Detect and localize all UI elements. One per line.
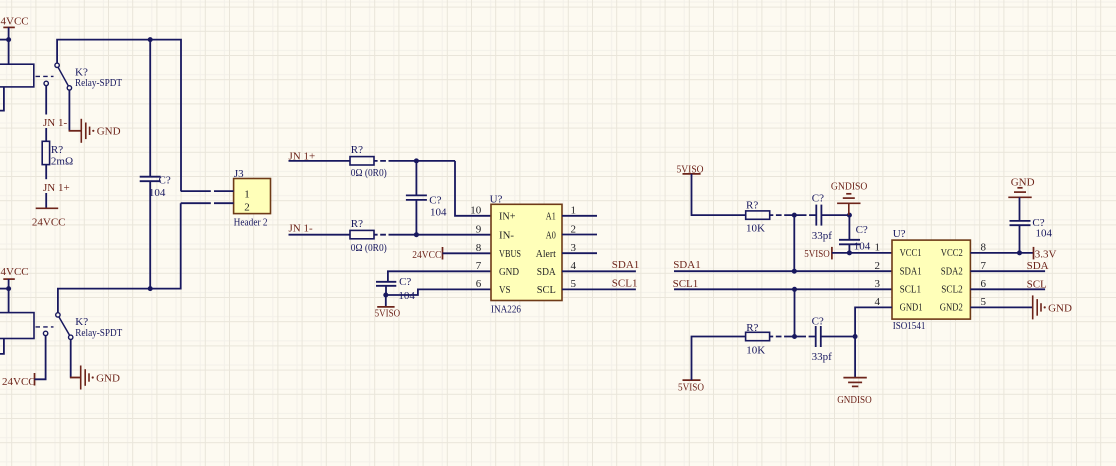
relay K1 common contact [55,63,59,67]
wire to pin 1 [832,252,892,254]
svg-text:R?: R? [746,199,758,211]
svg-text:SCL1: SCL1 [900,284,922,296]
svg-text:SCL1: SCL1 [673,278,699,290]
resistor R3 0R body [350,230,374,238]
svg-text:9: 9 [476,223,482,235]
svg-text:2: 2 [244,201,250,213]
junction [148,37,153,42]
svg-text:SCL1: SCL1 [612,277,638,289]
svg-text:SDA: SDA [1027,260,1049,272]
junction [847,250,852,255]
svg-text:4: 4 [571,260,577,272]
svg-text:1: 1 [875,242,881,254]
ground GND (relay K1) [69,130,82,132]
wire pin7 GND to C3 [388,271,491,282]
pin 1 of J3 [181,190,234,192]
svg-text:5VISO: 5VISO [678,381,704,393]
capacitor C4 33pf plates [815,205,817,226]
wire [8,40,10,65]
op-amp U1 INA226 body [491,204,562,300]
svg-text:SDA1: SDA1 [900,266,922,278]
relay K2 common contact [56,313,60,317]
wire [770,214,817,216]
svg-text:IN+: IN+ [499,211,516,223]
wire [793,215,795,271]
svg-text:0Ω (0R0): 0Ω (0R0) [351,242,387,254]
svg-text:SDA2: SDA2 [941,266,963,278]
svg-text:VBUS: VBUS [499,248,521,260]
svg-text:4: 4 [875,296,881,308]
relay K2 blade [59,317,70,336]
wire [58,203,181,313]
wire to pin 10 [455,161,491,216]
wire [1019,225,1021,253]
svg-text:3.3V: 3.3V [1035,249,1057,261]
relay K1 blade [58,67,68,86]
svg-text:5: 5 [571,278,577,290]
wire [57,40,181,192]
wire [821,214,849,216]
wire [821,336,855,338]
svg-text:JN 1+: JN 1+ [43,182,70,194]
relay K1 contact NC [44,81,48,85]
capacitor C2 104 lead [415,161,417,196]
wire [8,289,10,313]
svg-text:GND: GND [1048,302,1072,314]
wire [35,336,46,380]
svg-text:0Ω (0R0): 0Ω (0R0) [351,167,387,179]
junction [853,334,858,339]
capacitor C2 plates [406,194,427,196]
svg-text:VCC2: VCC2 [941,247,963,259]
wire [149,181,151,288]
svg-text:Alert: Alert [536,248,556,260]
capacitor C5 104 plates [839,239,860,241]
svg-text:J3: J3 [234,168,244,180]
pin 4 wire [562,270,636,272]
svg-text:GND: GND [97,126,121,138]
svg-text:C?: C? [429,194,441,206]
power port 24VCC (below shunt) [36,207,59,209]
svg-text:24VCC: 24VCC [32,217,66,229]
junction [1017,250,1022,255]
wire [149,40,151,177]
wire [770,336,816,338]
junction [414,158,419,163]
svg-text:IN-: IN- [499,229,514,241]
junction [792,269,797,274]
wire [289,160,351,162]
wire [0,39,9,41]
svg-text:7: 7 [981,260,987,272]
pin 8 wire [970,252,1033,254]
relay coil box (clipped at left edge) [0,64,34,87]
svg-text:R?: R? [351,144,363,156]
svg-text:GND2: GND2 [940,302,963,314]
wire [415,200,417,235]
junction [6,37,11,42]
wire [848,244,850,253]
svg-text:24VCC: 24VCC [412,249,441,261]
svg-text:JN 1-: JN 1- [43,117,67,129]
svg-text:1: 1 [244,189,250,201]
svg-text:GND: GND [96,372,120,384]
svg-text:8: 8 [981,242,987,254]
svg-text:INA226: INA226 [491,303,521,315]
svg-text:A1: A1 [546,211,556,223]
svg-text:10K: 10K [746,223,765,235]
svg-text:C?: C? [399,276,411,288]
junction [383,293,388,298]
svg-text:SDA1: SDA1 [673,259,701,271]
ground GND (relay K2) [70,377,81,379]
svg-text:R?: R? [746,322,758,334]
wire SDA1 to pin 2 [674,270,892,272]
wire [0,288,9,290]
svg-text:10: 10 [470,205,482,217]
wire [848,215,850,240]
wire pin6 VS jog [386,289,491,295]
svg-text:VCC1: VCC1 [900,247,922,259]
svg-text:5VISO: 5VISO [804,248,830,260]
svg-text:5: 5 [981,296,987,308]
junction [792,334,797,339]
svg-text:3: 3 [875,278,881,290]
wire [70,340,72,378]
svg-text:GND: GND [499,266,519,278]
svg-text:6: 6 [476,278,482,290]
svg-text:2: 2 [571,223,577,235]
ground GNDISO (bottom) [843,377,866,379]
wire to pin 4 [855,307,892,336]
svg-text:VS: VS [499,284,511,296]
svg-text:2mΩ: 2mΩ [51,155,73,167]
wire [68,90,70,131]
svg-text:C?: C? [812,315,824,327]
wire [374,160,455,162]
relay K2 dashed actuator link [36,326,54,328]
svg-text:U?: U? [893,228,906,240]
svg-text:C?: C? [159,174,171,186]
svg-text:10K: 10K [746,344,765,356]
wire [692,337,746,381]
svg-text:Header 2: Header 2 [234,216,268,228]
svg-text:3: 3 [571,242,577,254]
svg-text:SDA: SDA [537,266,556,278]
svg-text:SCL2: SCL2 [941,284,963,296]
svg-text:24VCC: 24VCC [0,16,29,28]
svg-text:JN 1-: JN 1- [289,222,313,234]
wire [289,234,351,236]
relay K2 contact NO [69,335,73,339]
wire SCL1 to pin 3 [674,288,892,290]
ground GND (pin 5) [1032,295,1034,319]
svg-text:5VISO: 5VISO [375,308,401,320]
capacitor C1 104 plates [140,176,161,178]
svg-text:SDA1: SDA1 [612,259,640,271]
svg-text:24VCC: 24VCC [0,266,29,278]
svg-text:104: 104 [398,290,415,302]
power port 5VISO (below C3) [385,295,387,307]
pin 6 wire [970,288,1045,290]
pin 2 of J3 [181,202,234,204]
wire [45,86,47,115]
svg-text:GNDISO: GNDISO [831,181,868,193]
svg-text:7: 7 [476,260,482,272]
svg-text:C?: C? [812,193,824,205]
wire [692,174,746,215]
pin 5 wire [562,288,636,290]
junction [414,232,419,237]
relay K2 contact NC [43,331,47,335]
svg-text:U?: U? [490,194,503,206]
svg-text:C?: C? [856,224,868,236]
capacitor C3 104 plates [376,281,396,283]
svg-text:2: 2 [875,260,881,272]
wire [385,286,387,295]
svg-text:Relay-SPDT: Relay-SPDT [75,77,122,89]
ground GNDISO (top, bars up) [848,203,850,215]
pin 5 wire [970,306,1032,308]
svg-text:104: 104 [430,207,447,219]
junction [792,213,797,218]
junction [792,287,797,292]
svg-text:ISO1541: ISO1541 [893,320,926,332]
svg-text:33pf: 33pf [812,230,833,242]
capacitor C7 33pf plates [815,326,817,347]
wire [854,337,856,378]
svg-text:33pf: 33pf [812,351,833,363]
svg-text:24VCC: 24VCC [2,376,36,388]
svg-text:GND: GND [1011,176,1035,188]
pin 7 wire [970,270,1045,272]
svg-text:A0: A0 [546,229,556,241]
wire [794,289,796,336]
capacitor C6 104 plates [1010,220,1031,222]
wire [0,87,4,111]
svg-text:GND1: GND1 [900,302,923,314]
wire [1019,197,1021,221]
pin 3 wire [562,252,597,254]
wire to pin 8 [443,252,492,254]
svg-text:6: 6 [981,278,987,290]
power port GND (top right) [1008,196,1031,198]
relay coil box 2 (clipped at left edge) [0,313,34,339]
resistor R2 0R body [350,157,374,165]
svg-text:SCL: SCL [537,284,556,296]
svg-text:104: 104 [854,241,871,253]
resistor R1 2mOhm body [42,141,49,164]
resistor R5 10K body [746,332,770,340]
relay K1 contact NO [67,86,71,90]
resistor R4 10K body [746,211,770,219]
svg-text:SCL: SCL [1027,278,1047,290]
wire to pin 9 [374,234,491,236]
svg-text:8: 8 [476,242,482,254]
op-amp U2 ISO1541 body [892,240,970,319]
svg-text:104: 104 [149,187,166,199]
junction [148,286,153,291]
junction [6,286,11,291]
svg-text:1: 1 [571,205,577,217]
connector J3 body [234,179,271,214]
wire [0,339,4,354]
svg-text:R?: R? [351,218,363,230]
svg-text:GNDISO: GNDISO [837,394,872,406]
svg-text:104: 104 [1036,228,1053,240]
wire [45,165,47,180]
pin 2 wire [562,234,597,236]
pin 1 wire [562,215,597,217]
junction [847,213,852,218]
power port 3.3V [1033,247,1035,260]
svg-text:Relay-SPDT: Relay-SPDT [75,327,122,339]
relay K1 dashed actuator link [36,75,54,77]
